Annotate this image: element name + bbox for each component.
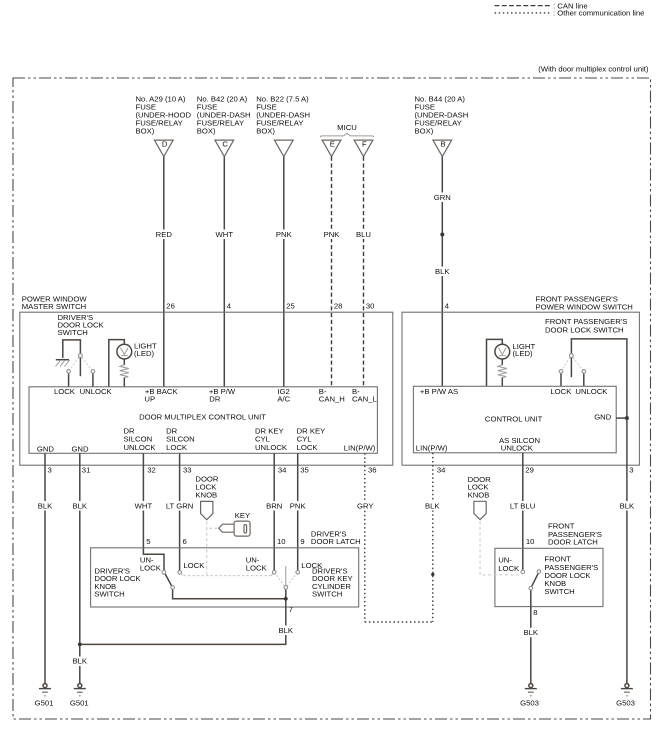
svg-text:LOCK: LOCK <box>54 387 76 396</box>
LED indicator (master switch) <box>109 340 157 387</box>
connector E <box>322 140 341 157</box>
LED indicator (passenger switch) <box>487 339 536 386</box>
pin label DR KEY CYL LOCK <box>297 426 326 452</box>
ground G501 (pin 3) <box>35 684 54 708</box>
svg-text:SWITCH: SWITCH <box>58 328 88 337</box>
pin numbers below master switch box <box>48 465 377 474</box>
svg-text:BLK: BLK <box>425 501 440 510</box>
svg-text:SWITCH: SWITCH <box>94 590 124 599</box>
fuse label No. B44 (20 A) FUSE (UNDER-DASH FUSE/RELAY BOX) <box>415 95 469 136</box>
svg-text:BLK: BLK <box>279 626 294 635</box>
wire LT GRN from pin 33 to latch pin 6 <box>163 465 196 570</box>
svg-text:BLU: BLU <box>356 230 371 239</box>
pin label DR KEY CYL UNLOCK <box>255 426 288 452</box>
legend Other communication line <box>495 9 645 18</box>
svg-text:KNOB: KNOB <box>195 490 217 499</box>
svg-text:C: C <box>222 140 228 149</box>
svg-text:LIN(P/W): LIN(P/W) <box>416 444 448 453</box>
svg-text:10: 10 <box>277 537 286 546</box>
driver's door lock switch <box>63 340 95 387</box>
svg-text:E: E <box>330 140 335 149</box>
wire BLK from passenger GND pin 3 to G503 <box>616 418 638 683</box>
svg-text:32: 32 <box>147 465 156 474</box>
svg-text:(With door multiplex control u: (With door multiplex control unit) <box>538 65 649 74</box>
ground G501 (pin 31) <box>70 684 89 708</box>
fuse label No. B22 (7.5 A) FUSE (UNDER-DASH FUSE/RELAY BOX) <box>256 95 310 136</box>
svg-text:LOCK: LOCK <box>183 561 205 570</box>
wire GRN/BLK from fuse B to pin 4 of passenger switch <box>430 157 455 387</box>
svg-text:DOOR LATCH: DOOR LATCH <box>548 538 598 547</box>
key symbol <box>209 511 250 536</box>
svg-text:LOCK: LOCK <box>550 387 572 396</box>
svg-text:26: 26 <box>166 301 175 310</box>
pin label AS SILCON UNLOCK <box>499 436 540 453</box>
pin label +B P/W DR <box>209 387 236 404</box>
svg-text:25: 25 <box>286 301 295 310</box>
svg-text:34: 34 <box>437 465 446 474</box>
wire BLK (LIN, dotted) to passenger pin 34 <box>422 453 444 622</box>
wire BLK from pin 3 to G501 <box>34 465 56 683</box>
wire BLK from latch pin 7 to pin 31 wire <box>80 605 297 644</box>
ground G503 (latch pin 8) <box>520 684 539 708</box>
connector D <box>154 140 173 157</box>
driver's door key cylinder switch <box>272 566 299 607</box>
door lock knob symbol (driver) <box>195 475 219 576</box>
wire PNK from fuse B22 to pin 25 <box>272 157 296 387</box>
svg-text:UNLOCK: UNLOCK <box>501 443 534 452</box>
svg-text:LOCK: LOCK <box>498 564 520 573</box>
door lock knob symbol (passenger) <box>468 475 520 575</box>
front passenger's door lock switch <box>559 339 627 418</box>
pin label DR SILCON LOCK <box>166 426 195 452</box>
svg-text:BLK: BLK <box>435 267 450 276</box>
chassis ground of driver's door lock switch <box>56 360 70 367</box>
svg-text:BLK: BLK <box>524 628 539 637</box>
wire PNK from pin 35 to latch pin 9 <box>286 465 310 570</box>
front passenger's power window switch box <box>402 294 639 465</box>
svg-text:GRN: GRN <box>434 193 451 202</box>
svg-text:33: 33 <box>183 465 192 474</box>
junction on fuse B wire <box>440 233 444 237</box>
junction on pin 31 wire <box>78 643 82 647</box>
svg-text:BOX): BOX) <box>197 127 216 136</box>
svg-text:35: 35 <box>300 465 309 474</box>
svg-text:GND: GND <box>71 444 89 453</box>
power window master switch box <box>20 294 393 465</box>
svg-text:CAN_H: CAN_H <box>319 395 345 404</box>
pin label B-CAN_L <box>352 387 378 404</box>
svg-text:CONTROL UNIT: CONTROL UNIT <box>485 415 543 424</box>
svg-text:G501: G501 <box>70 698 89 707</box>
ground G503 (passenger pin 3) <box>616 684 635 708</box>
driver's door lock switch label <box>58 313 105 337</box>
wire LT BLU from pin 29 to passenger latch pin 10 <box>508 465 538 570</box>
svg-text:DOOR MULTIPLEX CONTROL UNIT: DOOR MULTIPLEX CONTROL UNIT <box>139 412 266 421</box>
svg-text:DOOR LATCH: DOOR LATCH <box>311 537 361 546</box>
svg-text:PNK: PNK <box>290 501 307 510</box>
wire PNK (B-CAN_H, dashed) from E to pin 28 <box>320 157 344 387</box>
svg-text:WHT: WHT <box>135 501 153 510</box>
svg-text:LT BLU: LT BLU <box>510 501 535 510</box>
svg-text:LOCK: LOCK <box>166 443 188 452</box>
svg-text:MASTER SWITCH: MASTER SWITCH <box>22 302 87 311</box>
wire WHT from pin 32 to latch pin 5 <box>131 465 164 570</box>
svg-text:3: 3 <box>48 465 52 474</box>
svg-text:GRY: GRY <box>357 501 374 510</box>
svg-text:(LED): (LED) <box>134 349 155 358</box>
svg-text:BLK: BLK <box>38 501 53 510</box>
door multiplex control unit box <box>29 387 377 454</box>
svg-text:LIN(P/W): LIN(P/W) <box>344 444 376 453</box>
svg-text:UNLOCK: UNLOCK <box>255 443 288 452</box>
svg-text:GND: GND <box>37 444 55 453</box>
pin numbers below passenger switch box <box>437 465 634 474</box>
svg-text:31: 31 <box>82 465 91 474</box>
svg-text:4: 4 <box>445 301 450 310</box>
junction on LIN wire <box>431 573 434 576</box>
svg-text:10: 10 <box>526 537 535 546</box>
wire RED from fuse D to pin 26 <box>152 157 176 387</box>
svg-text:5: 5 <box>146 537 150 546</box>
svg-text:8: 8 <box>533 608 537 617</box>
connector C <box>215 140 234 157</box>
svg-text:G503: G503 <box>520 698 539 707</box>
svg-text:B: B <box>441 140 446 149</box>
connector B <box>433 140 452 157</box>
svg-text:UP: UP <box>144 395 155 404</box>
svg-text:GND: GND <box>594 413 612 422</box>
svg-text:SWITCH: SWITCH <box>544 587 574 596</box>
svg-text:UNLOCK: UNLOCK <box>124 443 157 452</box>
wire BRN from pin 34 to latch pin 10 <box>263 465 287 570</box>
svg-text:LT GRN: LT GRN <box>166 501 193 510</box>
svg-text:BOX): BOX) <box>256 127 275 136</box>
mechanical linkage (dashed) knob to key cylinder <box>181 574 273 576</box>
GND stub wire and junction <box>616 416 629 420</box>
svg-text:6: 6 <box>183 537 187 546</box>
svg-text:G503: G503 <box>616 698 635 707</box>
driver's door key cylinder switch labels <box>246 556 353 599</box>
svg-text:RED: RED <box>156 230 173 239</box>
svg-text:BOX): BOX) <box>415 127 434 136</box>
driver's door lock knob switch <box>162 571 286 599</box>
svg-text:SWITCH: SWITCH <box>312 590 342 599</box>
svg-text:BRN: BRN <box>266 501 282 510</box>
svg-text:PNK: PNK <box>324 230 341 239</box>
svg-text:LOCK: LOCK <box>246 564 268 573</box>
svg-text:F: F <box>362 140 367 149</box>
control unit box <box>413 386 616 453</box>
wire WHT from fuse C to pin 4 <box>212 157 237 387</box>
svg-text:DOOR LOCK SWITCH: DOOR LOCK SWITCH <box>545 325 624 334</box>
svg-text:(LED): (LED) <box>513 349 534 358</box>
svg-text:A/C: A/C <box>277 395 290 404</box>
MICU label and bracket <box>320 123 373 137</box>
front passenger's door lock switch label <box>545 317 627 335</box>
pin label DR SILCON UNLOCK <box>124 426 157 452</box>
pin label B-CAN_H <box>319 387 345 404</box>
svg-text:: Other communication line: : Other communication line <box>553 9 644 18</box>
pin stubs between inner box and outer box bottom (master) <box>45 453 298 465</box>
pin stub wire 29 <box>522 453 524 465</box>
connector triangle (fuse B22) <box>274 140 293 157</box>
svg-text:BOX): BOX) <box>136 127 155 136</box>
svg-text:BLK: BLK <box>73 501 88 510</box>
svg-text:34: 34 <box>278 465 287 474</box>
svg-text:UNLOCK: UNLOCK <box>575 387 608 396</box>
front passenger's door lock knob switch <box>520 570 542 684</box>
svg-text:29: 29 <box>525 465 534 474</box>
svg-text:CAN_L: CAN_L <box>352 395 378 404</box>
svg-text:WHT: WHT <box>216 230 234 239</box>
svg-text:BLK: BLK <box>73 657 88 666</box>
svg-text:DR: DR <box>209 395 221 404</box>
fuse label No. A29 (10 A) FUSE (UNDER-HOOD FUSE/RELAY BOX) <box>136 95 192 136</box>
front passenger's door lock knob switch labels <box>498 555 598 597</box>
svg-text:KNOB: KNOB <box>468 491 490 500</box>
pin label IG2 A/C <box>277 387 290 404</box>
svg-text:MICU: MICU <box>337 123 357 132</box>
fuse label No. B42 (20 A) FUSE (UNDER-DASH FUSE/RELAY BOX) <box>197 95 251 136</box>
driver's door lock knob switch labels <box>94 556 205 599</box>
connector F <box>354 140 373 157</box>
svg-text:G501: G501 <box>35 698 54 707</box>
front passenger's door latch box <box>495 521 603 606</box>
svg-text:9: 9 <box>300 537 304 546</box>
wire GRY (LIN, dotted) from pin 36 <box>353 453 433 622</box>
svg-text:POWER WINDOW SWITCH: POWER WINDOW SWITCH <box>536 303 633 312</box>
svg-text:3: 3 <box>629 465 633 474</box>
driver's door latch box <box>91 529 361 607</box>
svg-text:36: 36 <box>368 465 377 474</box>
svg-text:LOCK: LOCK <box>140 564 162 573</box>
svg-text:LOCK: LOCK <box>297 443 319 452</box>
svg-text:30: 30 <box>366 301 375 310</box>
svg-text:D: D <box>162 140 168 149</box>
svg-text:28: 28 <box>334 301 343 310</box>
svg-text:7: 7 <box>289 605 293 614</box>
wire BLK from pin 31 to G501 <box>69 465 91 683</box>
svg-text:BLK: BLK <box>620 501 635 510</box>
svg-text:PNK: PNK <box>276 230 293 239</box>
legend CAN line <box>495 1 588 10</box>
svg-text:4: 4 <box>227 301 232 310</box>
svg-text:+B P/W AS: +B P/W AS <box>420 387 458 396</box>
pin label +B BACK UP <box>144 387 178 404</box>
svg-text:KEY: KEY <box>235 511 250 520</box>
svg-text:UNLOCK: UNLOCK <box>80 387 113 396</box>
wire BLU (B-CAN_L, dashed) from F to pin 30 <box>353 157 375 387</box>
